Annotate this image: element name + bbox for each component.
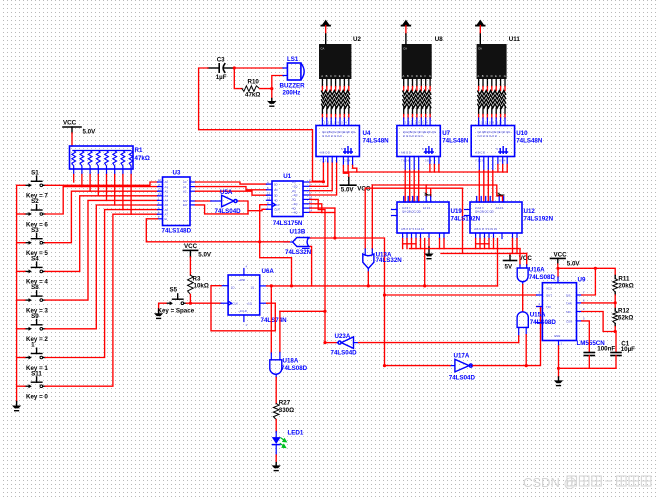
power VCC3 (555) 5.0V — [551, 257, 566, 259]
svg-text:VCC: VCC — [184, 243, 198, 250]
svg-text:QA QB QC QD: QA QB QC QD — [402, 210, 421, 214]
svg-text:U1: U1 — [283, 173, 291, 180]
svg-text:U8: U8 — [435, 36, 443, 43]
svg-text:CA: CA — [478, 47, 482, 51]
svg-text:74LS04D: 74LS04D — [331, 350, 358, 357]
ground (key bus) — [16, 402, 18, 406]
svg-text:THR: THR — [566, 301, 572, 305]
svg-text:74LS48N: 74LS48N — [516, 137, 543, 144]
wire junction down to R10 — [234, 68, 242, 89]
svg-text:Key = Space: Key = Space — [158, 308, 195, 315]
wire bus drop mid — [462, 188, 464, 253]
encoder U3 74LS148D — [163, 177, 191, 226]
wire U9 CON to C2 — [582, 321, 590, 353]
wire U19 count pins from buses — [425, 185, 427, 197]
wire bus drop to U13A input 2 — [371, 185, 373, 249]
wire S5 to U6A — [186, 302, 221, 304]
svg-text:~1Q: ~1Q — [292, 185, 298, 189]
wire R10 to ground / LS1 pin2 — [260, 89, 272, 99]
wire U3 GS to U5A input — [196, 200, 211, 202]
svg-text:QA QB QC QD: QA QB QC QD — [475, 210, 494, 214]
wire R1 pin verticals to key bus — [73, 175, 75, 183]
svg-text:R11: R11 — [618, 275, 630, 282]
wire S1 to encoder bus — [45, 182, 157, 185]
svg-text:R3: R3 — [193, 276, 201, 283]
svg-text:5V: 5V — [505, 264, 513, 271]
switch S8 (Key = 3) — [25, 299, 29, 301]
svg-text:C: C — [330, 74, 332, 78]
resistor network R1 47k — [70, 146, 134, 169]
svg-text:A B C D: A B C D — [320, 151, 330, 155]
wire VCC3 node — [557, 264, 559, 268]
svg-text:74LS74N: 74LS74N — [261, 317, 288, 324]
wire U23A output to riser — [325, 342, 336, 344]
svg-text:200Hz: 200Hz — [283, 90, 301, 97]
wire U15A left input from U23A line — [518, 327, 520, 336]
wire left bus to S11 — [17, 385, 25, 387]
svg-text:U6A: U6A — [262, 268, 275, 275]
svg-text:74LS04D: 74LS04D — [449, 375, 476, 382]
svg-text:VCC: VCC — [519, 255, 533, 262]
svg-text:E: E — [495, 74, 497, 78]
power VCC (5.0V) mid — [348, 172, 350, 178]
wire U19 bottom pins to bus — [402, 239, 404, 249]
BCD decoder U10 74LS48N — [471, 126, 514, 157]
svg-text:74LS192N: 74LS192N — [451, 216, 481, 223]
svg-text:13 12 11 10 9 15 14: 13 12 11 10 9 15 14 — [477, 121, 502, 125]
power VCC 5V (counters) — [509, 253, 511, 255]
svg-text:VCC: VCC — [357, 186, 371, 193]
power arrow (U11) — [476, 20, 485, 26]
svg-text:1: 1 — [31, 342, 35, 349]
ground (U19) — [428, 239, 430, 248]
svg-text:A B C D 5 4 11 14: A B C D 5 4 11 14 — [401, 227, 424, 231]
svg-text:A1: A1 — [183, 185, 187, 189]
svg-text:RST: RST — [546, 321, 552, 325]
svg-text:U3: U3 — [173, 170, 181, 177]
wire carry bus upper — [372, 185, 502, 202]
svg-text:Key = 0: Key = 0 — [26, 394, 48, 401]
BCD decoder U4 74LS48N — [316, 126, 359, 157]
svg-text:5.0V: 5.0V — [567, 260, 581, 267]
wire left bus to S3 — [17, 242, 25, 244]
svg-text:5.0V: 5.0V — [198, 252, 212, 259]
wire left bus to S2 — [17, 213, 25, 215]
svg-text:R12: R12 — [618, 307, 630, 314]
svg-text:1µF: 1µF — [216, 74, 227, 81]
ground (S5) — [154, 313, 163, 316]
wire R12 bottom junction — [614, 327, 616, 332]
svg-text:Key = 2: Key = 2 — [26, 336, 48, 343]
svg-text:~1PR: ~1PR — [238, 278, 245, 282]
wire U9 TRI loop to R12 bottom — [582, 312, 615, 332]
svg-text:A4: A4 — [165, 199, 169, 203]
wire bus drop to U13A input 1 — [364, 188, 366, 249]
svg-text:A: A — [321, 74, 323, 78]
wire 1Q output bus (to U13B / gates) — [267, 285, 498, 287]
svg-text:10: 10 — [158, 178, 162, 182]
svg-text:S8: S8 — [31, 284, 39, 291]
power arrow (U8) — [402, 20, 411, 26]
svg-text:D: D — [334, 74, 336, 78]
wire left bus to S1 — [17, 184, 25, 186]
wire mid riser to U17A — [334, 208, 336, 238]
wire cap bottoms to ground bus — [588, 356, 590, 369]
svg-text:U9: U9 — [578, 277, 586, 284]
svg-text:C: C — [486, 74, 488, 78]
svg-text:R1: R1 — [135, 147, 143, 154]
wire S4 to encoder bus — [45, 196, 157, 272]
svg-text:74LS08D: 74LS08D — [529, 274, 556, 281]
wire VCC1 to R1 — [71, 133, 73, 146]
svg-text:74LS48N: 74LS48N — [442, 137, 469, 144]
counter U12 74LS192N — [470, 202, 522, 233]
svg-text:A2: A2 — [183, 189, 187, 193]
power VCC2 (R3) — [183, 249, 197, 251]
svg-text:G: G — [504, 74, 506, 78]
ground (LED1) — [272, 465, 281, 468]
svg-text:A5: A5 — [165, 203, 169, 207]
svg-text:A6: A6 — [165, 208, 169, 212]
svg-text:A B C D 5 4 11 14: A B C D 5 4 11 14 — [474, 227, 497, 231]
wire U1 lower Q nest — [310, 199, 325, 342]
switch S11 (Key = 0) — [25, 385, 29, 387]
svg-text:1D: 1D — [231, 286, 235, 290]
wire U9 THR to R11/R12 junction — [582, 302, 615, 304]
flip-flop U6A 74LS74N — [228, 275, 260, 315]
svg-text:3 5 4: 3 5 4 — [344, 159, 351, 163]
wire U12 carry down — [497, 239, 499, 286]
wire left bus to 1 — [17, 357, 25, 359]
svg-text:A3: A3 — [165, 194, 169, 198]
wire U9 DIS up to VCC rail — [582, 268, 596, 295]
svg-text:10µF: 10µF — [621, 346, 635, 353]
wire U16A output to U15A output node — [522, 285, 524, 312]
wire C3 to LS1 — [234, 67, 283, 69]
svg-text:A: A — [403, 74, 405, 78]
svg-text:13 12 11 10 9 15 14: 13 12 11 10 9 15 14 — [322, 121, 347, 125]
wire U18A input B — [279, 311, 281, 352]
svg-text:A2: A2 — [165, 189, 169, 193]
svg-text:R10: R10 — [248, 79, 260, 86]
svg-text:12: 12 — [267, 191, 271, 195]
wire U15A right input from U17A output — [525, 327, 527, 334]
svg-text:4D: 4D — [274, 199, 278, 203]
wire U13B output down to 1Q bus — [260, 242, 292, 286]
wire U19 clock pins — [439, 239, 441, 249]
svg-text:74LS08D: 74LS08D — [281, 365, 308, 372]
svg-text:3 5 4: 3 5 4 — [425, 159, 432, 163]
svg-text:CA: CA — [403, 47, 407, 51]
svg-text:47kΩ: 47kΩ — [245, 92, 260, 99]
svg-text:E: E — [420, 74, 422, 78]
ground (R10) — [271, 99, 273, 102]
svg-text:A0: A0 — [183, 180, 187, 184]
wire R11 bottom — [614, 295, 616, 303]
svg-text:E: E — [339, 74, 341, 78]
wire U10 pins to U12 — [478, 157, 480, 171]
quad D-FF U1 74LS175N — [272, 181, 303, 217]
svg-text:BUZZER: BUZZER — [280, 83, 306, 90]
wire U18A input A — [270, 286, 272, 353]
svg-text:S9: S9 — [31, 313, 39, 320]
svg-text:13: 13 — [158, 192, 162, 196]
svg-text:O O O O O O O: O O O O O O O — [403, 134, 424, 138]
wire left bus to S8 — [17, 299, 25, 301]
svg-text:U4: U4 — [363, 130, 371, 137]
wire U9 OUT long — [385, 294, 537, 296]
node counter bus A — [410, 248, 521, 250]
switch 1 (Key = 1) — [25, 357, 29, 359]
svg-text:S4: S4 — [31, 256, 39, 263]
svg-text:B: B — [482, 74, 484, 78]
wire left bus to S4 — [17, 270, 25, 272]
wire U17A output to U9 TRI — [473, 307, 541, 366]
wire ~1Q to loop — [267, 303, 276, 331]
7-seg display U8 — [402, 44, 432, 79]
7-seg display U11 — [477, 44, 507, 79]
wire U12 bottom pins to bus — [475, 239, 477, 249]
svg-text:~2Q: ~2Q — [292, 193, 298, 197]
timer U9 LM555CN — [542, 283, 576, 341]
wire R3 to S5 node — [189, 294, 191, 303]
svg-text:~1CLR: ~1CLR — [238, 309, 247, 313]
wire U13B output to U1 CLR — [284, 241, 293, 243]
svg-text:74LS32N: 74LS32N — [285, 249, 312, 256]
svg-text:CSDN @: CSDN @ — [523, 475, 577, 490]
counter U19 74LS192N — [397, 202, 449, 233]
svg-text:S2: S2 — [31, 198, 39, 205]
wire VCC3 to R11 — [558, 268, 615, 275]
7-seg display U2 — [319, 44, 351, 79]
wire C3 left to 1Q riser — [199, 68, 324, 181]
resistor R11 20k — [614, 275, 616, 278]
svg-text:B: B — [407, 74, 409, 78]
wire counter bus to U16A inputs — [519, 249, 521, 265]
svg-text:12: 12 — [158, 187, 162, 191]
wire U3 A0..A2 to U1 inputs — [196, 182, 267, 184]
svg-text:DIS: DIS — [566, 294, 571, 298]
svg-text:74LS192N: 74LS192N — [524, 216, 554, 223]
svg-text:G: G — [429, 74, 431, 78]
svg-text:20kΩ: 20kΩ — [618, 283, 633, 290]
wire U18A output to R27 — [275, 378, 277, 404]
wire U9 GND to ground — [558, 346, 560, 368]
resistor R12 62k — [614, 303, 616, 309]
wire U19 carry down — [424, 239, 426, 286]
svg-text:U12: U12 — [524, 208, 536, 215]
switch S2 (Key = 6) — [25, 213, 29, 215]
svg-text:EI: EI — [165, 217, 168, 221]
svg-text:U2: U2 — [353, 36, 361, 43]
svg-text:U16A: U16A — [529, 267, 545, 274]
svg-text:74LS04D: 74LS04D — [215, 208, 242, 215]
svg-text:U10: U10 — [516, 130, 528, 137]
wire left bus to S9 — [17, 328, 25, 330]
svg-text:3D: 3D — [274, 193, 278, 197]
svg-text:U13B: U13B — [290, 229, 306, 236]
wire S5 to ground — [159, 303, 166, 311]
svg-text:S1: S1 — [31, 169, 39, 176]
wire S8 to encoder bus — [45, 200, 157, 300]
svg-text:C3: C3 — [217, 57, 225, 64]
capacitor C2 100nF — [584, 352, 594, 354]
power arrow (U2) — [321, 20, 330, 26]
wire U5A output to U1 CLR — [239, 201, 248, 214]
switch S9 (Key = 2) — [25, 328, 29, 330]
node left key bus — [16, 185, 18, 401]
wire U23A input from U15A — [359, 342, 519, 344]
wire R27 to LED1 — [275, 420, 277, 432]
node counter bus B — [441, 252, 527, 254]
svg-text:G: G — [348, 74, 350, 78]
svg-text:5.0V: 5.0V — [341, 187, 355, 194]
svg-text:U17A: U17A — [454, 353, 470, 360]
svg-text:U18A: U18A — [283, 358, 299, 365]
svg-text:10kΩ: 10kΩ — [194, 283, 209, 290]
svg-text:D: D — [491, 74, 493, 78]
svg-text:TRI: TRI — [566, 310, 571, 314]
wire S2 to encoder bus — [45, 187, 157, 214]
wire U4 bottom-left pins (from U1) — [322, 157, 324, 163]
svg-text:D: D — [416, 74, 418, 78]
resistor R27 330 — [273, 404, 279, 420]
wire U13A output to 1Q bus — [367, 272, 369, 286]
svg-text:330Ω: 330Ω — [279, 407, 294, 414]
svg-text:LED1: LED1 — [288, 430, 304, 437]
svg-text:A1: A1 — [165, 185, 169, 189]
wire U3 EO under inverter — [196, 205, 249, 214]
svg-text:U7: U7 — [442, 130, 450, 137]
wire U13B inputs — [308, 237, 311, 239]
svg-text:47kΩ: 47kΩ — [135, 155, 150, 162]
switch S3 (Key = 5) — [25, 242, 29, 244]
svg-text:A B C D: A B C D — [401, 151, 411, 155]
svg-text:S3: S3 — [31, 227, 39, 234]
svg-text:11: 11 — [158, 183, 161, 187]
svg-text:100nF: 100nF — [597, 346, 615, 353]
svg-text:74LS48N: 74LS48N — [363, 137, 390, 144]
wire LED1 to ground — [275, 445, 277, 455]
wire U7 pins to U19 — [404, 157, 406, 171]
svg-text:A: A — [477, 74, 479, 78]
svg-text:74LS175N: 74LS175N — [273, 220, 303, 227]
ground (555) — [554, 380, 563, 383]
svg-text:CON: CON — [566, 319, 572, 323]
svg-text:5.0V: 5.0V — [83, 129, 97, 136]
node C3/R10 junction — [233, 66, 236, 69]
svg-text:74LS32N: 74LS32N — [376, 257, 403, 264]
svg-text:A0: A0 — [165, 180, 169, 184]
resistor R3 10k — [188, 275, 194, 294]
svg-text:CA: CA — [321, 47, 325, 51]
svg-text:U11: U11 — [509, 36, 521, 43]
wire U11 pins / crossing bundle — [478, 79, 480, 87]
node BI/RBO bus — [343, 171, 507, 173]
wire U1 1Q-4Q staircase up to U4 (BCD) — [310, 162, 323, 182]
wire S11 to encoder bus — [45, 214, 157, 386]
svg-text:A7: A7 — [165, 212, 169, 216]
power VCC1 5.0V (top-left) — [63, 126, 81, 128]
svg-text:S11: S11 — [31, 370, 42, 377]
switch S5 (Key = Space) — [166, 302, 170, 304]
svg-text:LS1: LS1 — [287, 56, 299, 63]
svg-text:A B C D: A B C D — [475, 151, 485, 155]
wire U6A 1D feedback loop — [211, 286, 275, 331]
svg-text:VCC: VCC — [554, 252, 568, 259]
svg-text:O O O O O O O: O O O O O O O — [322, 134, 343, 138]
wire VCC2 to R3 — [189, 257, 191, 275]
wire U17A input — [385, 365, 451, 367]
LED1 — [272, 437, 281, 444]
svg-text:GND: GND — [554, 334, 560, 338]
svg-text:12 13: 12 13 — [423, 206, 430, 210]
wire U2 pins / crossing bundle — [321, 79, 323, 87]
wire U8 pins / crossing bundle — [403, 79, 405, 87]
svg-text:B: B — [326, 74, 328, 78]
svg-text:1D: 1D — [274, 182, 278, 186]
svg-text:74LS148D: 74LS148D — [162, 228, 192, 235]
svg-text:U19: U19 — [451, 208, 463, 215]
svg-text:R27: R27 — [279, 400, 291, 407]
wire 1 to encoder bus — [45, 210, 157, 358]
wire C1 top — [615, 332, 617, 353]
svg-text:TRI: TRI — [546, 305, 551, 309]
wire S3 to encoder bus — [45, 191, 157, 243]
wire S9 to encoder bus — [45, 205, 157, 329]
svg-text:CLR: CLR — [274, 208, 280, 212]
svg-text:13: 13 — [267, 197, 271, 201]
svg-text:2D: 2D — [274, 188, 278, 192]
svg-text:S5: S5 — [170, 287, 178, 294]
svg-text:OUT: OUT — [546, 294, 552, 298]
svg-text:VCC: VCC — [63, 120, 77, 127]
svg-text:C: C — [411, 74, 413, 78]
wire U4 bottom-right pins to 5V bus — [342, 157, 344, 166]
wire carry bus lower — [365, 187, 462, 189]
BCD decoder U7 74LS48N — [397, 126, 440, 157]
switch S4 (Key = 4) — [25, 270, 29, 272]
svg-text:12 13: 12 13 — [496, 206, 503, 210]
capacitor C1 10uF — [611, 352, 621, 354]
svg-text:O O O O O O O: O O O O O O O — [477, 134, 498, 138]
svg-text:62kΩ: 62kΩ — [618, 315, 633, 322]
svg-text:~1Q: ~1Q — [247, 302, 253, 306]
switch S1 (Key = 7) — [25, 184, 29, 186]
svg-text:VCC: VCC — [546, 287, 552, 291]
svg-text:~4Q: ~4Q — [292, 211, 298, 215]
svg-text:13 12 11 10 9 15 14: 13 12 11 10 9 15 14 — [403, 121, 428, 125]
